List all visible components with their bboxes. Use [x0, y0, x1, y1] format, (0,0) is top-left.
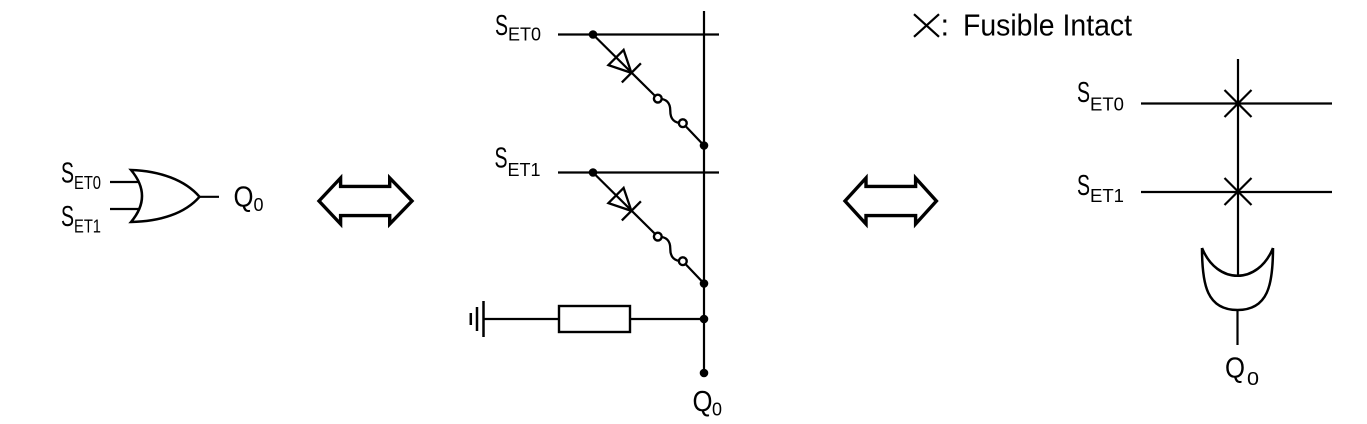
- svg-text:ET0: ET0: [508, 25, 541, 45]
- node S_ET0 label (left gate input): [61, 158, 101, 194]
- junction resistor on bit line: [700, 315, 709, 324]
- wire S_ET0 row line (right circuit): [1141, 102, 1332, 104]
- or-gate U2 (simplified wired-OR crescent symbol): [1202, 248, 1273, 310]
- wire vertical bit line (middle circuit, node Q0): [703, 11, 705, 373]
- svg-text:0: 0: [1247, 369, 1259, 389]
- or-gate U1 (left OR gate symbol): [131, 170, 200, 222]
- svg-text:0: 0: [254, 195, 264, 215]
- junction on S_ET1 row: [589, 168, 598, 177]
- svg-text:ET1: ET1: [74, 217, 101, 237]
- ground symbol: [471, 301, 484, 337]
- resistor R1 (pull-down resistor): [559, 306, 630, 332]
- junction of branch 1 on bit line: [700, 141, 709, 150]
- wire ground to resistor: [484, 318, 559, 320]
- node S_ET1 label (middle circuit): [495, 143, 541, 181]
- junction of branch 2 on bit line: [700, 279, 709, 288]
- svg-text:S: S: [1077, 170, 1090, 202]
- svg-text:0: 0: [712, 400, 722, 420]
- svg-text:ET0: ET0: [74, 173, 101, 193]
- fuse mark X1 (intact fusible on S_ET0): [1225, 90, 1252, 117]
- svg-text:Q: Q: [1225, 353, 1245, 385]
- node Q0 label (middle circuit): [693, 386, 723, 420]
- node S_ET1 label (right circuit): [1077, 170, 1124, 206]
- diode D2 (triangle and cathode bar): [608, 188, 641, 221]
- node Q0 label (left gate output): [234, 182, 264, 216]
- fuse mark X2 (intact fusible on S_ET1): [1225, 178, 1252, 205]
- fuse F2 (intact fusible link: circles with S-curve): [654, 233, 687, 265]
- node S_ET0 label (right circuit): [1077, 77, 1124, 115]
- fuse F1 (intact fusible link: circles with S-curve): [654, 95, 687, 127]
- svg-text:S: S: [61, 201, 74, 233]
- svg-text::: :: [941, 8, 950, 43]
- wire input 1 to left OR gate: [110, 181, 141, 183]
- svg-text:S: S: [495, 143, 508, 175]
- wire S_ET0 row line (middle circuit): [558, 33, 719, 35]
- terminal node Q0 (bit line end): [700, 369, 709, 378]
- wire diagonal branch 1: [593, 35, 704, 146]
- legend text: Fusible Intact: [941, 8, 1133, 43]
- svg-text:ET1: ET1: [508, 160, 541, 180]
- equivalence arrow 1 (double-headed block arrow): [319, 178, 412, 224]
- wire resistor to bit line: [630, 318, 704, 320]
- svg-text:S: S: [61, 158, 74, 190]
- svg-text:S: S: [1077, 77, 1090, 109]
- diode D1 (triangle and cathode bar): [608, 50, 641, 83]
- svg-text:S: S: [495, 10, 508, 42]
- wire output of left OR gate: [200, 196, 220, 198]
- svg-text:Fusible Intact: Fusible Intact: [963, 8, 1132, 43]
- legend fusible-intact X symbol: [914, 14, 939, 37]
- wire S_ET1 row line (middle circuit): [558, 171, 719, 173]
- node S_ET1 label (left gate input): [61, 201, 101, 237]
- node S_ET0 label (middle circuit): [495, 10, 541, 45]
- svg-text:Q: Q: [234, 182, 254, 214]
- junction on S_ET0 row: [589, 30, 598, 39]
- wire vertical OR line (right circuit): [1237, 59, 1239, 275]
- svg-text:ET0: ET0: [1090, 95, 1124, 115]
- node Q0 label (right circuit): [1225, 353, 1259, 390]
- wire OR output (right circuit): [1236, 310, 1238, 345]
- svg-text:ET1: ET1: [1090, 186, 1124, 206]
- equivalence arrow 2 (double-headed block arrow): [845, 178, 936, 224]
- wire S_ET1 row line (right circuit): [1141, 191, 1332, 193]
- svg-text:Q: Q: [693, 386, 713, 418]
- wire input 2 to left OR gate: [110, 208, 141, 210]
- wire diagonal branch 2: [593, 173, 704, 284]
